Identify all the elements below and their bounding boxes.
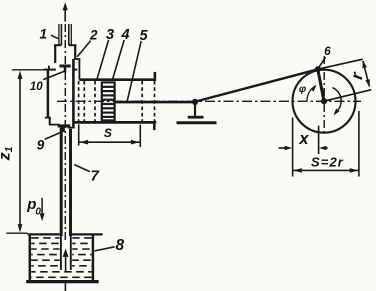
support pedestal	[177, 104, 217, 123]
piston end positions (dashed)	[79, 81, 155, 121]
svg-text:6: 6	[324, 44, 331, 58]
z1 bottom extension (water level)	[6, 232, 27, 234]
angle phi arc	[307, 85, 316, 101]
svg-text:2: 2	[89, 28, 98, 43]
svg-text:z1: z1	[0, 146, 15, 161]
crank vertical centerline	[323, 56, 325, 136]
tank right wall	[92, 234, 95, 281]
svg-text:x: x	[298, 130, 309, 148]
dimension z1	[18, 71, 23, 233]
dimension S=2r	[293, 168, 359, 173]
svg-text:3: 3	[106, 27, 114, 43]
label 10	[30, 71, 64, 93]
connecting rod	[195, 69, 317, 101]
valve chamber 2 top-right jog	[74, 59, 80, 80]
dimension extension lines	[293, 111, 359, 177]
cylinder bottom wall	[73, 121, 156, 124]
cylinder 3 top wall	[79, 78, 156, 81]
piston 4	[102, 82, 115, 120]
rotation arrow	[332, 88, 341, 116]
label 3	[97, 27, 114, 79]
svg-text:S: S	[104, 126, 112, 140]
suction pipe 7	[61, 127, 71, 270]
suction valve 9	[58, 126, 71, 132]
label 8	[95, 237, 125, 254]
chamber left wall	[45, 70, 60, 125]
label 7	[74, 165, 99, 185]
svg-text:8: 8	[115, 237, 124, 254]
label 4	[112, 27, 129, 80]
horizontal axis centerline	[57, 100, 361, 102]
crank circle	[293, 70, 356, 133]
piston rod 5	[115, 101, 196, 104]
outlet flow arrow	[63, 2, 68, 21]
label 9	[37, 132, 63, 153]
suction flow arrow	[63, 248, 69, 271]
dimension S	[79, 140, 139, 145]
label 6	[319, 44, 331, 67]
z1 top extension	[12, 69, 44, 71]
crank radius extension lines	[318, 59, 372, 101]
svg-text:9: 9	[37, 138, 45, 153]
tank bottom	[26, 280, 99, 283]
dimension r	[362, 60, 370, 87]
crank arm	[318, 69, 324, 101]
svg-text:φ: φ	[299, 83, 307, 95]
svg-text:S=2r: S=2r	[311, 154, 344, 169]
svg-text:r: r	[347, 70, 367, 81]
discharge pipe 1	[59, 24, 71, 45]
label 1	[39, 26, 58, 41]
label 2	[77, 28, 98, 57]
chamber right wall	[68, 59, 75, 128]
delivery valve 10	[59, 66, 70, 72]
crosshead pivot	[192, 99, 198, 105]
p0 arrow	[40, 198, 45, 221]
label 5	[127, 28, 148, 101]
cylinder right flange	[153, 72, 156, 130]
pin projection line	[318, 126, 320, 155]
chamber top-left shelf	[44, 66, 78, 70]
svg-text:7: 7	[91, 168, 100, 185]
tank left wall	[29, 234, 32, 281]
tank 8 rim	[28, 233, 103, 235]
water level hatching	[31, 238, 91, 277]
svg-text:10: 10	[30, 81, 43, 93]
crank pin 6	[315, 66, 321, 72]
pump vertical centerline	[64, 24, 66, 240]
svg-text:1: 1	[39, 26, 47, 41]
dimension x	[279, 146, 328, 151]
crank center	[321, 98, 327, 104]
pipe flange step	[54, 45, 77, 63]
centerline stub below tank	[64, 283, 66, 291]
dimension S extension lines	[79, 124, 141, 147]
svg-text:4: 4	[121, 27, 130, 43]
svg-text:p0: p0	[26, 196, 41, 218]
